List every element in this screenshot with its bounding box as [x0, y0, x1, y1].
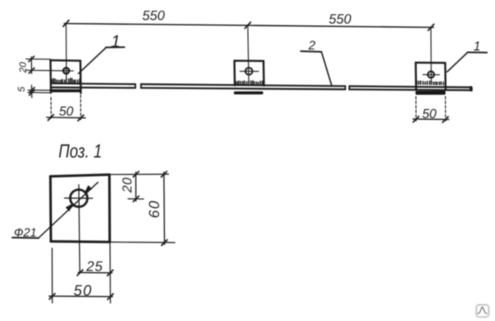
dimension line 550 (left span) — [64, 24, 248, 26]
svg-text:20: 20 — [119, 177, 134, 194]
5 dim ticks — [29, 88, 35, 93]
plate 3 (right) outline — [416, 62, 446, 64]
bar (item 2) top line, segment A — [51, 82, 135, 85]
svg-text:2: 2 — [308, 38, 316, 52]
dimension line 550 (right span) — [248, 25, 434, 27]
20 dim detail: hole-level short line — [128, 198, 144, 200]
svg-text:1: 1 — [473, 38, 480, 53]
60 dim detail: vertical line — [163, 172, 166, 244]
ticks — [133, 172, 139, 178]
ticks — [413, 116, 419, 122]
20 dim detail: top extension — [109, 173, 168, 175]
bar bottom line, segment B — [141, 88, 345, 89]
25 ticks — [77, 270, 83, 276]
leader 2 (bar) — [301, 50, 322, 53]
svg-text:20: 20 — [18, 61, 29, 73]
weld flange under plate 1 — [50, 89, 81, 92]
bar break end caps — [134, 84, 136, 88]
svg-text:550: 550 — [329, 11, 352, 26]
weld flange under plate 2 — [234, 91, 263, 94]
svg-text:50: 50 — [422, 106, 437, 121]
extension line left (to hole 1 center) — [65, 24, 67, 80]
weld hatch under plate 3 — [417, 81, 444, 85]
hole 2 horizontal centerline — [240, 70, 259, 72]
20 dim detail: vertical line — [135, 172, 137, 201]
weld hatch under plate 2 — [236, 81, 263, 85]
watermark logo bottom-right — [476, 305, 488, 317]
ticks — [48, 115, 54, 121]
svg-text:25: 25 — [85, 258, 103, 274]
svg-text:50: 50 — [74, 283, 93, 300]
20 dim ticks — [29, 56, 35, 61]
svg-text:50: 50 — [59, 104, 74, 119]
50 ticks — [49, 294, 55, 300]
hole crosshair vertical / 25-dim extension — [79, 185, 80, 273]
f21 leader diagonal — [39, 182, 98, 238]
bar bottom line, segment C — [349, 88, 471, 91]
weld hatch under plate 1 — [52, 78, 80, 83]
f21 underline — [12, 237, 38, 240]
bar top line, segment B — [141, 84, 345, 86]
5 dim: vertical dimension line — [31, 85, 33, 97]
svg-text:5: 5 — [17, 86, 28, 92]
svg-text:1: 1 — [111, 32, 120, 51]
bar bottom line, segment A — [51, 86, 135, 89]
tick middle — [245, 22, 251, 28]
50 dim: line — [49, 295, 113, 298]
svg-text:Ф21: Ф21 — [14, 225, 37, 239]
50 dim line (right) — [413, 118, 449, 121]
leader 1 (right plate) — [447, 52, 467, 71]
weld flange under plate 3 — [416, 91, 446, 95]
bar top line, segment C — [349, 86, 471, 87]
extension line middle (to hole 2) — [248, 25, 249, 82]
hole crosshair horizontal — [65, 197, 93, 199]
hole 1 horizontal centerline / 20-dim extension — [26, 69, 73, 72]
ticks — [161, 172, 167, 178]
20 dim: vertical dimension line — [30, 57, 32, 74]
hole 3 — [428, 71, 434, 77]
5 dim: extension lines — [28, 89, 50, 91]
50 dim (left plate): dashed projection lines — [50, 98, 52, 120]
svg-text:550: 550 — [142, 8, 165, 23]
25/50 right extension — [109, 244, 111, 304]
plate 1 (left) outline — [51, 59, 81, 62]
svg-text:Поз. 1: Поз. 1 — [59, 141, 103, 162]
svg-text:60: 60 — [147, 200, 163, 218]
plate detail outline — [50, 175, 109, 177]
50 dim (right plate): dashed projection lines — [415, 97, 417, 122]
extension line right (to hole 3) — [430, 27, 432, 82]
60 dim detail: bottom extension — [111, 241, 175, 244]
20 dim: top extension line — [26, 58, 51, 60]
plate 2 (middle) outline — [234, 60, 263, 62]
tick left — [63, 20, 69, 26]
50 dim: left extension — [51, 248, 53, 303]
f21 arrowheads — [66, 204, 72, 210]
hole detail — [70, 190, 87, 207]
hole 1 — [63, 68, 69, 74]
hole 3 horizontal centerline — [423, 74, 440, 76]
hole 2 — [245, 68, 252, 75]
leader 1 (left plate) — [79, 48, 107, 74]
bar right end cap — [470, 88, 473, 91]
tick right — [428, 24, 434, 30]
50 dim line (left) — [47, 116, 86, 119]
25 dim: line — [78, 272, 112, 274]
